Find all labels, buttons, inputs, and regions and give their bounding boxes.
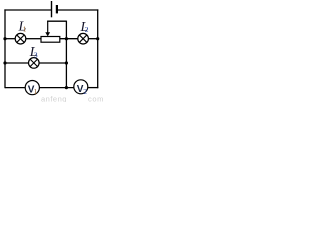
svg-text:anfeng: anfeng [41,94,67,102]
node junction L3 row left [3,61,6,64]
wire right vertical [97,9,99,88]
watermark text [41,94,104,103]
wire L1 to rheostat [26,38,41,40]
svg-text:1: 1 [23,25,27,33]
svg-text:1: 1 [34,88,38,96]
rheostat slider arrow [45,21,50,36]
node junction L1 row left [3,37,6,40]
wire bottom-left segment [5,87,25,89]
svg-text:2: 2 [85,25,89,34]
label L3 [29,45,38,60]
node junction bottom middle [65,86,68,89]
wire top-left segment [4,9,51,11]
battery short plate (-) [56,5,58,13]
node junction rheostat/L2 [65,37,68,40]
voltmeter V1 [25,81,39,97]
lamp L3 [29,58,40,69]
wire V2 to right vertical [88,87,99,89]
wire L2 to right vertical [88,38,97,40]
voltmeter V2 [74,80,88,96]
svg-text:com: com [88,94,103,102]
wire left vertical [4,9,6,88]
label L1 [18,20,27,35]
label L2 [80,20,89,35]
wire rheostat bypass top [47,20,66,22]
lamp L1 [15,33,26,44]
lamp L2 [78,33,89,44]
battery long plate (+) [51,1,53,17]
wire top-right segment [57,9,98,11]
wire middle vertical [65,39,67,88]
wire rheostat to L2 [60,38,78,40]
wire L3-row left [5,62,29,64]
wire L3 to middle vertical [39,62,66,64]
wire V1 to middle vertical [39,87,74,89]
wire L1-row left [5,38,15,40]
node junction L2 row right [96,37,99,40]
node junction L3 row right [65,61,68,64]
rheostat R body [41,37,60,43]
svg-text:3: 3 [34,50,38,59]
wire rheostat bypass down [65,21,67,39]
svg-text:2: 2 [83,87,87,96]
